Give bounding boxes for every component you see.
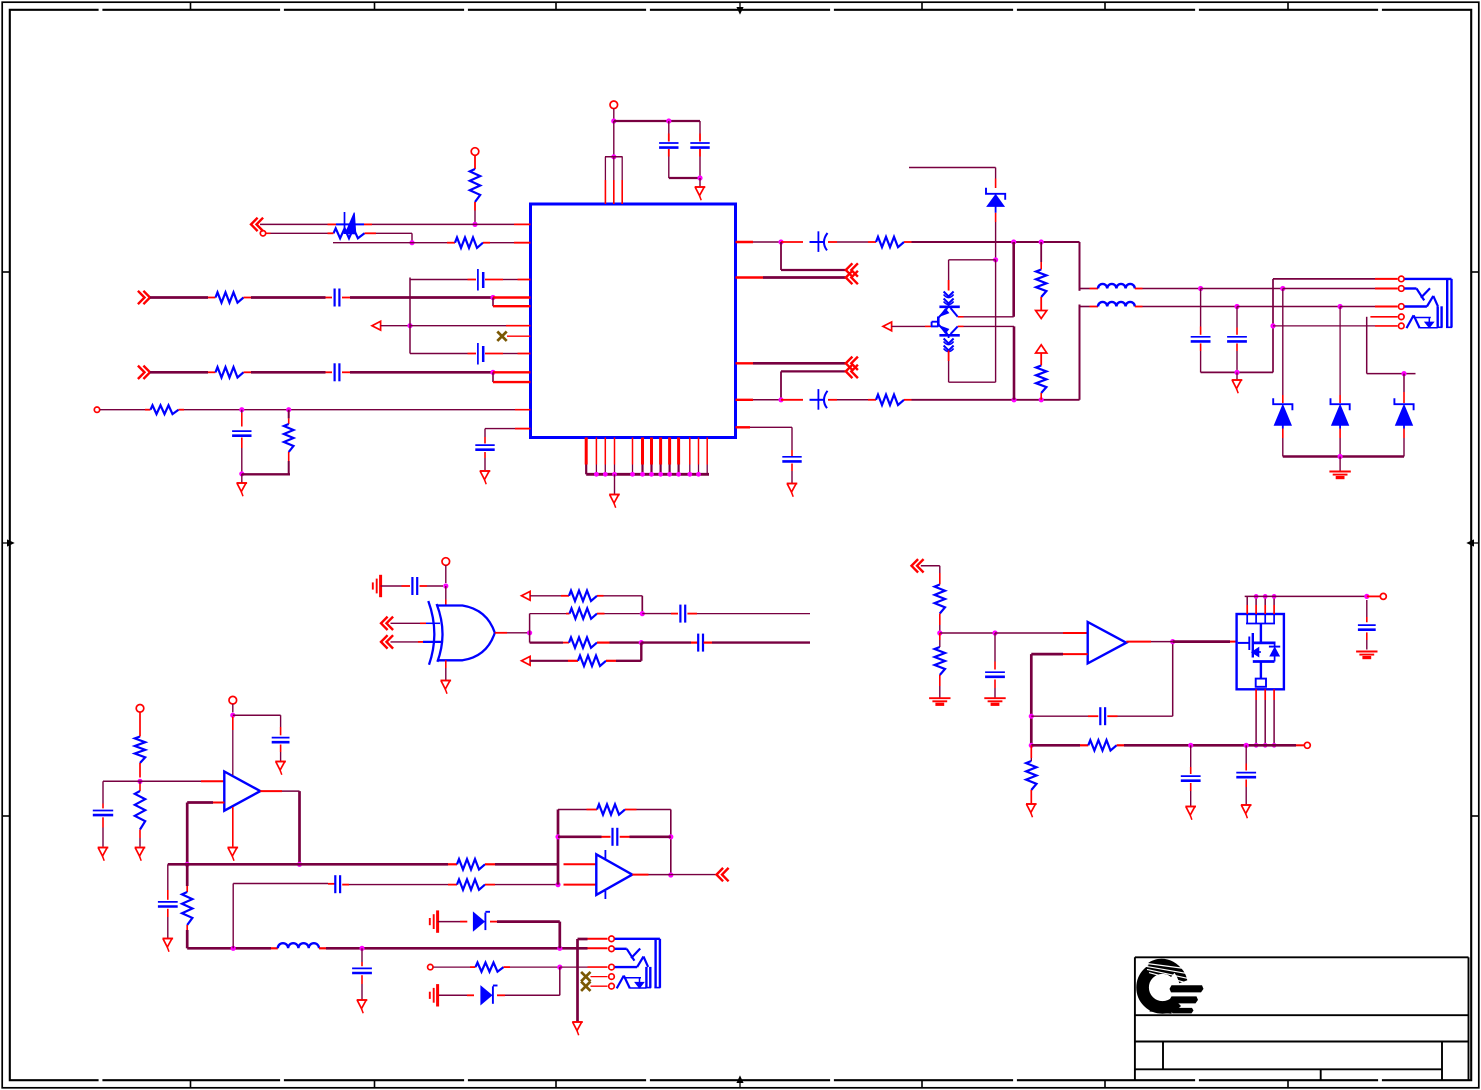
- wire row3: [530, 641, 563, 643]
- resistor R7 branch: [288, 410, 290, 419]
- MOSFET top pins: [1246, 596, 1248, 605]
- wire net row2: [266, 232, 271, 234]
- wire to opamp: [140, 780, 201, 782]
- XOR gnd pin: [445, 660, 447, 668]
- no-connect X1: [497, 332, 506, 341]
- wire: [940, 632, 995, 634]
- title block frame: [1135, 956, 1469, 958]
- capacitor C3: [326, 297, 333, 299]
- wire: [949, 259, 996, 261]
- wire sleeve riser: [1272, 279, 1274, 373]
- wire riser2: [559, 967, 561, 995]
- ground earth: [929, 697, 950, 699]
- resistor R17: [939, 633, 941, 640]
- resistor R16: [935, 585, 945, 614]
- capacitor C18: [1099, 707, 1101, 725]
- wire row 279.5: [410, 279, 468, 281]
- base input arrow: [883, 322, 892, 331]
- ground: [572, 1021, 583, 1023]
- wire row 353.5: [410, 353, 468, 355]
- resistor R2 on TVS: [334, 228, 365, 238]
- resistor R6: [145, 409, 151, 411]
- wire: [948, 260, 950, 280]
- capacitor C17: [994, 633, 996, 662]
- capacitor C23: [272, 737, 290, 739]
- input arrow pin: [372, 321, 381, 330]
- border center arrow top: [739, 2, 741, 12]
- resistor R13: [566, 613, 570, 615]
- op-amp output wire: [1126, 641, 1151, 643]
- resistor R22: [448, 863, 457, 865]
- IC left pin row 428.6: [515, 428, 531, 430]
- bottom rail wire: [1031, 744, 1080, 747]
- wire cap row: [233, 883, 328, 885]
- offpage connector P2: [143, 291, 150, 304]
- capacitor C19 at VCC: [1366, 600, 1368, 617]
- wire: [232, 704, 234, 712]
- wire: [411, 233, 413, 242]
- diode ground bus: [1283, 455, 1404, 457]
- capacitor C20: [1190, 745, 1192, 767]
- capacitor C15: [679, 605, 681, 623]
- ground earth: [1356, 651, 1377, 653]
- ground: [228, 847, 239, 849]
- wire: [616, 660, 641, 662]
- no-connect X3: [581, 982, 590, 991]
- wire branch to offpage2: [780, 371, 782, 399]
- ground: [1241, 804, 1252, 806]
- capacitor C5: [477, 269, 479, 291]
- power pin circle: [1380, 593, 1386, 599]
- wire: [530, 595, 561, 597]
- capacitor C13 shunt: [1236, 307, 1238, 328]
- offpage connector P4: [846, 263, 853, 276]
- wire net5: [100, 409, 145, 411]
- ground earth left2: [429, 918, 431, 925]
- wire: [495, 884, 558, 886]
- wire: [391, 622, 421, 624]
- wire: [530, 660, 568, 662]
- resistor R3: [447, 242, 455, 244]
- logo crescent: [1143, 959, 1189, 1014]
- resistor R4: [208, 297, 216, 299]
- resistor R8: [868, 241, 876, 243]
- left rail wire: [409, 278, 411, 354]
- wire: [604, 595, 643, 597]
- MOSFET bottom pins: [1255, 689, 1257, 700]
- capacitor C6: [477, 343, 479, 365]
- feedback cap wire: [558, 835, 602, 838]
- jack J2 pins: [609, 936, 615, 942]
- resistor R9: [868, 399, 876, 401]
- wire: [350, 371, 493, 374]
- diode stack bottom: [948, 335, 950, 338]
- capacitor C14: [411, 577, 413, 595]
- wire: [613, 121, 615, 157]
- inductor L1: [1080, 288, 1090, 290]
- ground: [357, 999, 368, 1001]
- XOR output wire: [495, 632, 507, 634]
- bus wire noninv: [168, 863, 448, 866]
- IC U1: [531, 204, 736, 438]
- wire: [1236, 372, 1238, 379]
- wire net top: [909, 167, 996, 169]
- wire: [241, 474, 243, 483]
- border center arrow right: [1469, 542, 1479, 544]
- resistor R15: [568, 660, 578, 662]
- wire: [242, 473, 290, 475]
- wire: [150, 371, 208, 374]
- op-amp U4: [224, 772, 260, 811]
- wire: [381, 585, 402, 587]
- bus2 wire: [187, 947, 271, 950]
- wire branch to offpage: [780, 242, 782, 270]
- resistor R11 with power arrow: [1036, 345, 1047, 353]
- IC right row 242: [736, 241, 754, 243]
- wire: [712, 641, 810, 643]
- ground: [135, 847, 146, 849]
- offpage connector P9: [381, 635, 388, 648]
- wire: [669, 177, 700, 179]
- capacitor C9 polarized: [810, 241, 824, 243]
- diode D1 TVS: [344, 212, 346, 234]
- capacitor C24 branch: [167, 864, 169, 890]
- wire jack pin4: [1370, 316, 1397, 318]
- wire: [948, 351, 950, 362]
- power pin VCC2: [442, 558, 450, 566]
- offpage connector P11: [717, 868, 724, 881]
- border zone ticks: [190, 2, 192, 10]
- wire: [103, 780, 140, 782]
- ground bus wire: [1201, 371, 1273, 373]
- power pin VCC3: [136, 705, 144, 713]
- wire: [610, 641, 642, 643]
- offpage connector P1: [251, 218, 258, 231]
- power pin VCC4: [229, 696, 237, 704]
- ground: [441, 680, 452, 682]
- capacitor C26 branch: [361, 948, 363, 962]
- wire: [995, 222, 997, 260]
- wire: [1012, 242, 1015, 317]
- wire: [391, 641, 419, 643]
- wire: [605, 613, 643, 615]
- bottom pin bus bar: [586, 473, 709, 476]
- resistor R5: [208, 371, 216, 373]
- IC top pins: [605, 156, 623, 158]
- inductor L2: [1080, 306, 1090, 308]
- connector circle net5: [94, 407, 99, 412]
- connector circle: [260, 231, 265, 236]
- IC right row 277.5: [736, 276, 764, 278]
- zener diode D4: [1339, 307, 1341, 396]
- wire: [233, 714, 281, 716]
- jack J2 symbol: [615, 938, 660, 940]
- capacitor C21: [1245, 745, 1247, 763]
- arrow pin row1: [522, 591, 531, 600]
- offpage connector P7: [846, 365, 853, 378]
- ground: [787, 483, 798, 485]
- capacitor C1: [668, 121, 670, 134]
- arrow pin row4: [522, 656, 531, 665]
- offpage connector P3: [143, 366, 150, 379]
- MOSFET internals: [1246, 614, 1248, 624]
- IC right row 427.3: [736, 426, 751, 428]
- op-amp gnd pin: [232, 807, 234, 847]
- op-amp out wire: [632, 874, 648, 876]
- wire: [1339, 457, 1341, 472]
- wire: [995, 168, 997, 179]
- wire: [438, 921, 460, 923]
- resistor R18: [1088, 740, 1116, 750]
- ground: [480, 470, 491, 472]
- ground: [1232, 379, 1243, 381]
- capacitor C7 branch: [241, 410, 243, 413]
- capacitor C25: [334, 875, 336, 893]
- capacitor C12 shunt: [1200, 289, 1202, 327]
- ground: [237, 482, 248, 484]
- XOR gate U2: [437, 606, 494, 661]
- ground: [98, 847, 109, 849]
- connector circle: [1304, 742, 1310, 748]
- resistor R21: [139, 781, 141, 784]
- op-amp inv wire: [213, 802, 224, 804]
- no-connect X2: [581, 972, 590, 981]
- inductor L3: [271, 947, 278, 949]
- resistor R24: [448, 884, 457, 886]
- jack J2 ground wire: [576, 939, 579, 1022]
- ground: [163, 938, 174, 940]
- wire: [251, 296, 326, 299]
- wire: [445, 565, 447, 583]
- wire: [251, 371, 326, 374]
- zener diode D5: [1403, 374, 1405, 392]
- wire ring net: [1234, 304, 1239, 309]
- offpage connector P5: [846, 271, 853, 284]
- ground: [695, 186, 706, 188]
- resistor R12: [561, 595, 569, 597]
- feedback wires: [557, 810, 560, 885]
- wire: [184, 409, 515, 411]
- ground earth: [1329, 471, 1350, 473]
- ground: [275, 761, 286, 763]
- diode stack top: [944, 292, 954, 297]
- op-amp output wire: [260, 790, 282, 792]
- border center arrow bottom: [739, 1078, 741, 1088]
- zener diode D6: [474, 913, 485, 931]
- wire: [697, 613, 810, 615]
- feedback cap wire: [1031, 715, 1088, 717]
- wire: [614, 120, 700, 122]
- wire sleeve top: [1273, 278, 1375, 280]
- wire net row1: [260, 223, 328, 225]
- capacitor C16: [697, 634, 699, 652]
- capacitor C10 polarized: [810, 399, 824, 401]
- resistor R20: [139, 712, 141, 737]
- wire: [637, 809, 671, 811]
- logo bars: [1170, 985, 1204, 992]
- emitter wire bottom: [958, 325, 964, 327]
- resistor R25: [587, 809, 598, 811]
- wire: [614, 474, 616, 494]
- capacitor C27: [611, 828, 613, 846]
- offpage connector P10: [912, 559, 919, 572]
- zener diode D2: [986, 188, 1005, 200]
- wire: [1013, 326, 1016, 399]
- wire: [921, 565, 940, 567]
- op-amp U3: [1088, 622, 1127, 663]
- wire: [510, 966, 560, 968]
- wire: [613, 109, 615, 121]
- IC bottom pins: [585, 438, 588, 465]
- zener diode D7: [505, 994, 560, 996]
- capacitor C11 branch: [791, 427, 793, 450]
- wire tip net: [1198, 286, 1203, 291]
- capacitor C4: [326, 371, 333, 373]
- node: [666, 118, 671, 123]
- connector circle net: [428, 964, 433, 969]
- zener diode D3: [1282, 289, 1284, 396]
- wire: [434, 966, 471, 968]
- wire: [150, 296, 208, 299]
- wire: [912, 399, 1080, 401]
- border half-zone notches: [99, 8, 103, 12]
- ground earth: [984, 697, 1005, 699]
- drain rail wire: [1245, 595, 1367, 597]
- op-amp U5: [596, 854, 632, 895]
- resistor R10 with power arrow: [1040, 242, 1042, 262]
- resistor R1 pullup: [471, 148, 479, 156]
- ground: [1026, 803, 1037, 805]
- wire: [892, 325, 925, 327]
- capacitor C8 branch: [484, 429, 486, 437]
- wire: [912, 241, 1080, 243]
- MOSFET Q3 block: [1237, 614, 1284, 689]
- resistor R26: [470, 966, 476, 968]
- resistor R19 to gnd: [1030, 745, 1032, 758]
- transistor Q2: [939, 334, 959, 337]
- ground earth left3: [429, 992, 431, 999]
- wire: [350, 296, 493, 299]
- IC pin pair wires: [493, 296, 531, 298]
- base bracket: [931, 325, 938, 327]
- wire: [949, 381, 996, 383]
- IC right row 363.3: [736, 362, 754, 364]
- resistor R23 branch: [186, 864, 189, 886]
- offpage connector P8: [381, 617, 388, 630]
- border center arrow left: [2, 542, 12, 544]
- capacitor C2: [699, 121, 701, 134]
- ground: [1185, 806, 1196, 808]
- IC right row 399.8: [736, 399, 754, 401]
- wire riser: [232, 884, 234, 949]
- jack J1 pins: [1399, 276, 1405, 282]
- wire row 325.9: [1273, 325, 1375, 327]
- ground: [609, 494, 620, 496]
- transistor Q1: [939, 305, 959, 308]
- wire: [699, 178, 701, 187]
- feedback top wire: [558, 809, 587, 811]
- resistor R14: [563, 642, 569, 644]
- pin stub: [507, 335, 531, 337]
- wire net row3: [333, 242, 447, 244]
- IC pin pair wires: [493, 371, 531, 373]
- base bar: [937, 317, 940, 327]
- wire row2: [530, 613, 566, 615]
- wire: [381, 325, 410, 327]
- jack J1 symbol: [1405, 278, 1452, 280]
- op-amp inv input wire: [1063, 653, 1088, 655]
- ground earth left: [372, 582, 374, 589]
- corner rail right: [1079, 242, 1081, 291]
- wire: [495, 863, 558, 866]
- emitter wire top: [958, 316, 964, 318]
- offpage connector P6: [846, 357, 853, 370]
- XOR input stubs: [426, 622, 440, 624]
- power pin VCC1: [610, 101, 618, 109]
- capacitor C22: [102, 804, 104, 809]
